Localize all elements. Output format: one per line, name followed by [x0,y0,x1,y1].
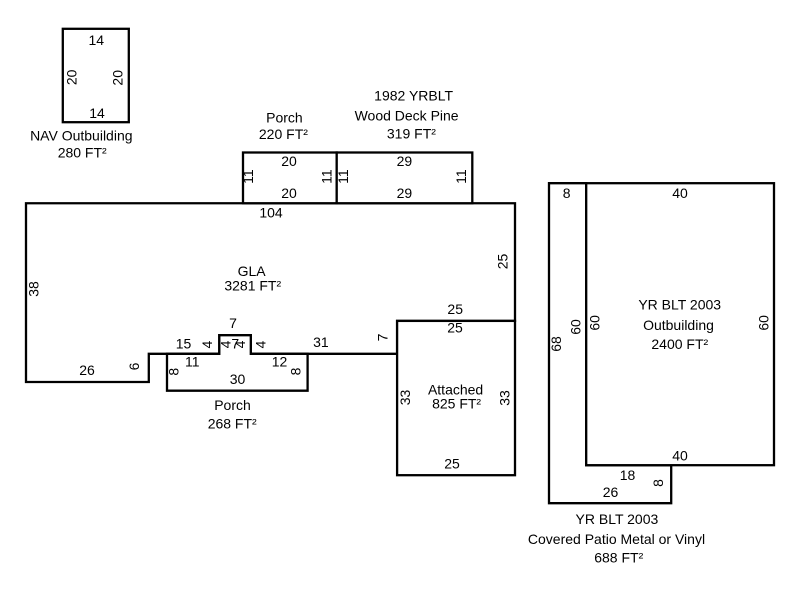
svg-text:Outbuilding: Outbuilding [643,317,714,333]
svg-text:25: 25 [447,301,463,317]
svg-text:11: 11 [240,169,256,184]
svg-text:268 FT²: 268 FT² [208,416,257,432]
svg-text:40: 40 [672,447,688,463]
svg-text:15: 15 [176,335,192,351]
svg-text:Wood Deck Pine: Wood Deck Pine [355,108,459,124]
svg-text:12: 12 [272,353,288,369]
svg-text:2400 FT²: 2400 FT² [651,336,708,352]
svg-text:68: 68 [548,336,564,352]
svg-text:YR BLT 2003: YR BLT 2003 [638,297,721,313]
svg-text:26: 26 [603,484,619,500]
svg-text:YR BLT 2003: YR BLT 2003 [576,511,659,527]
svg-text:Porch: Porch [266,110,303,126]
svg-text:11: 11 [453,169,469,184]
svg-text:25: 25 [447,320,463,336]
svg-text:11: 11 [185,353,200,369]
svg-text:25: 25 [444,455,460,471]
svg-text:11: 11 [335,169,351,184]
svg-text:1982 YRBLT: 1982 YRBLT [374,87,453,103]
svg-text:220 FT²: 220 FT² [259,126,308,142]
svg-text:8: 8 [165,368,181,376]
svg-text:60: 60 [568,319,584,335]
svg-text:31: 31 [313,334,329,350]
svg-text:38: 38 [25,281,41,297]
svg-text:20: 20 [110,70,126,86]
svg-text:319 FT²: 319 FT² [387,125,436,141]
svg-text:26: 26 [79,362,95,378]
svg-text:60: 60 [587,315,603,331]
svg-text:20: 20 [281,185,297,201]
svg-text:29: 29 [397,185,413,201]
svg-text:4: 4 [252,340,268,348]
svg-text:33: 33 [496,390,512,406]
svg-text:20: 20 [281,153,297,169]
svg-text:40: 40 [672,185,688,201]
svg-text:3281 FT²: 3281 FT² [224,277,281,293]
svg-text:Porch: Porch [214,397,251,413]
svg-text:60: 60 [755,315,771,331]
svg-text:20: 20 [64,69,80,85]
svg-text:11: 11 [319,169,335,184]
svg-text:8: 8 [563,185,571,201]
svg-text:Covered Patio Metal or Vinyl: Covered Patio Metal or Vinyl [528,531,705,547]
svg-text:14: 14 [89,105,105,121]
svg-text:104: 104 [259,204,283,220]
svg-text:8: 8 [650,479,666,487]
svg-text:NAV Outbuilding: NAV Outbuilding [30,127,132,143]
svg-text:7: 7 [229,315,237,331]
svg-text:688 FT²: 688 FT² [594,550,643,566]
svg-text:280 FT²: 280 FT² [58,145,107,161]
svg-text:14: 14 [89,32,105,48]
svg-text:18: 18 [620,467,636,483]
svg-text:4: 4 [199,340,215,348]
svg-text:6: 6 [126,362,142,370]
svg-text:GLA: GLA [238,263,267,279]
svg-text:29: 29 [397,153,413,169]
svg-text:25: 25 [495,254,511,270]
svg-text:7: 7 [375,333,391,341]
svg-text:4: 4 [232,340,248,348]
svg-text:8: 8 [287,367,303,375]
svg-text:825 FT²: 825 FT² [432,396,481,412]
svg-text:30: 30 [230,371,246,387]
svg-text:33: 33 [397,390,413,406]
